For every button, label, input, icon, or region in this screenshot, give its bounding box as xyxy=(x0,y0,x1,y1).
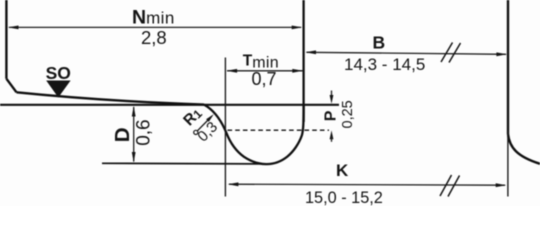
B left arrow xyxy=(305,50,316,54)
D top arrow xyxy=(132,106,136,117)
dimension D line xyxy=(133,107,135,162)
svg-text:0,6: 0,6 xyxy=(134,119,155,145)
svg-text:Nmin: Nmin xyxy=(132,6,175,28)
reference surface horizontal line xyxy=(0,104,339,106)
dimension P upper arrow tail xyxy=(331,91,333,99)
extension line right (for K and B) xyxy=(507,130,509,197)
svg-text:15,0 - 15,2: 15,0 - 15,2 xyxy=(305,189,383,206)
groove right wall main vertical line xyxy=(302,0,304,122)
extension line left (for T_min and K) xyxy=(224,58,226,197)
surface mark triangle xyxy=(46,81,70,98)
groove contour (left fillet, U bottom, right wall) xyxy=(204,105,304,165)
dimension T_min line xyxy=(227,70,303,72)
svg-text:P: P xyxy=(323,110,340,121)
T_min right arrow xyxy=(292,69,303,73)
B right arrow xyxy=(496,52,507,56)
profile left vertical edge xyxy=(5,0,7,79)
K left arrow xyxy=(228,182,239,186)
T_min left arrow xyxy=(227,69,238,73)
D bottom arrow xyxy=(132,152,136,163)
dimension P lower arrow tail xyxy=(331,136,333,142)
svg-text:2,8: 2,8 xyxy=(141,27,167,48)
right part fillet into next groove xyxy=(508,134,540,164)
R1 arrowhead xyxy=(206,114,214,122)
svg-text:0,7: 0,7 xyxy=(252,69,277,89)
K break symbol xyxy=(440,175,460,197)
dimension K line xyxy=(229,184,505,185)
dimension B line xyxy=(307,52,507,54)
dimension N_min line xyxy=(9,26,301,28)
svg-text:B: B xyxy=(373,33,386,53)
B break symbol xyxy=(441,43,461,63)
R1 leader line xyxy=(197,117,211,131)
N_min right arrow xyxy=(292,26,303,30)
profile top-left chamfer xyxy=(6,79,16,93)
svg-text:SO: SO xyxy=(46,63,71,83)
P lower arrow (points up at dashed line) xyxy=(330,130,334,139)
svg-text:0,25: 0,25 xyxy=(340,100,356,128)
svg-text:14,3 - 14,5: 14,3 - 14,5 xyxy=(344,55,425,74)
groove bottom extension line xyxy=(102,162,264,165)
dashed wear-limit line xyxy=(228,129,330,131)
K right arrow xyxy=(496,183,507,187)
svg-text:D: D xyxy=(111,127,134,142)
right part vertical edge xyxy=(507,0,509,134)
svg-text:K: K xyxy=(336,161,349,180)
P upper arrow (points down at surface) xyxy=(330,95,334,104)
N_min left arrow xyxy=(8,26,19,30)
taper surface line (SO surface) xyxy=(17,92,205,104)
R1 leader tail circle xyxy=(194,130,198,134)
